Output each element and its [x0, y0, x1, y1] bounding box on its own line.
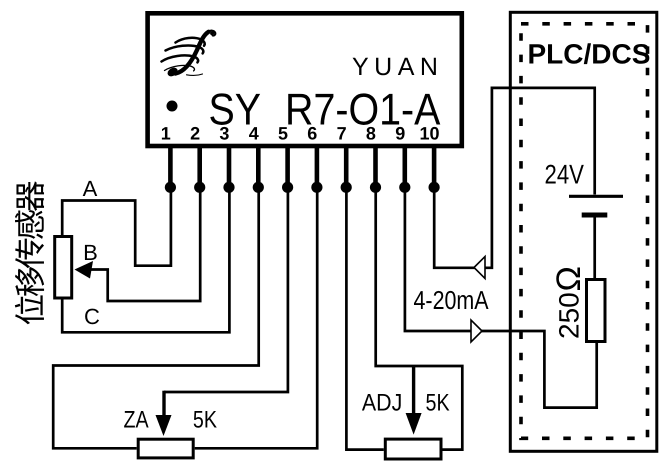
svg-text:8: 8: [366, 124, 376, 144]
wire pin 9 to 250R bottom (4-20mA loop): [405, 187, 597, 408]
pin 9 stub: [402, 146, 407, 187]
ADJ wiper arrow: [406, 413, 422, 435]
wire pin 4 to ZA left: [53, 187, 259, 448]
pin 10 stub: [432, 146, 437, 187]
pin 3 junction dot: [223, 182, 234, 193]
pin-1 indicator dot: [167, 101, 178, 112]
logo flourish f: [162, 31, 216, 79]
svg-text:Ω: Ω: [550, 266, 588, 291]
wire pin 10 to battery plus: [434, 88, 595, 268]
wire B: wiper to pin 2: [89, 187, 200, 301]
svg-text:10: 10: [419, 124, 439, 144]
pin 5 stub: [285, 146, 290, 187]
svg-text:24V: 24V: [545, 160, 584, 190]
PLC/DCS inner dashed box: [521, 24, 648, 439]
pin 7 stub: [344, 146, 349, 187]
pin 2 junction dot: [194, 182, 205, 193]
svg-text:A: A: [83, 176, 98, 201]
battery B1 minus plate: [582, 213, 608, 218]
current arrow upper (toward pin 10): [474, 257, 485, 279]
pin 9 junction dot: [399, 182, 410, 193]
pin 6 junction dot: [311, 182, 322, 193]
pin 2 stub: [197, 146, 202, 187]
pin 7 junction dot: [341, 182, 352, 193]
wire A: pot top to pin 1: [62, 187, 171, 266]
svg-text:2: 2: [190, 124, 200, 144]
potentiometer ZA body: [138, 439, 193, 458]
ZA wiper stem: [162, 391, 165, 418]
pin 8 junction dot: [370, 182, 381, 193]
svg-text:7: 7: [337, 124, 347, 144]
wire C: pot bottom to pin 3: [62, 187, 229, 332]
svg-text:B: B: [83, 240, 98, 265]
wire battery minus to 250R top: [593, 217, 596, 278]
sensor label 位移传感器: [15, 181, 44, 324]
svg-text:4: 4: [249, 124, 259, 144]
wire pin 8 to ADJ wiper and right: [376, 187, 463, 450]
RP wiper arrow: [75, 261, 94, 279]
svg-text:ADJ: ADJ: [362, 390, 402, 417]
svg-text:PLC/DCS: PLC/DCS: [528, 39, 651, 70]
pin 5 junction dot: [282, 182, 293, 193]
svg-text:9: 9: [395, 124, 405, 144]
potentiometer ADJ body: [385, 439, 441, 459]
pin 4 junction dot: [253, 182, 264, 193]
svg-text:3: 3: [219, 124, 229, 144]
svg-text:6: 6: [307, 124, 317, 144]
svg-text:YUAN: YUAN: [352, 53, 443, 81]
svg-text:5K: 5K: [193, 407, 217, 434]
current arrow lower (toward load): [471, 320, 482, 342]
PLC/DCS outer box: [510, 12, 657, 451]
wire pin 5 to ZA wiper: [164, 187, 288, 392]
svg-text:4-20mA: 4-20mA: [414, 285, 490, 315]
wire ZA right to pin 6: [195, 187, 318, 448]
svg-text:ZA: ZA: [124, 407, 149, 434]
ZA wiper arrow: [156, 415, 172, 436]
svg-text:1: 1: [161, 124, 171, 144]
resistor R1 250 ohm body: [587, 280, 606, 342]
pin 4 stub: [256, 146, 261, 187]
svg-text:250: 250: [554, 292, 585, 339]
wire pin 7 to ADJ left: [346, 187, 383, 450]
potentiometer RP body (displacement sensor): [55, 237, 72, 299]
pin 1 junction dot: [165, 182, 176, 193]
module U1 body: [148, 13, 462, 146]
ADJ wiper stem: [412, 366, 415, 416]
pin 1 stub: [168, 146, 173, 187]
svg-text:C: C: [84, 304, 100, 329]
svg-text:5: 5: [278, 124, 288, 144]
pin 8 stub: [373, 146, 378, 187]
battery B1 plus plate: [569, 195, 623, 198]
pin 6 stub: [315, 146, 320, 187]
pin 3 stub: [227, 146, 232, 187]
pin 10 junction dot: [429, 182, 440, 193]
svg-text:5K: 5K: [426, 390, 450, 417]
